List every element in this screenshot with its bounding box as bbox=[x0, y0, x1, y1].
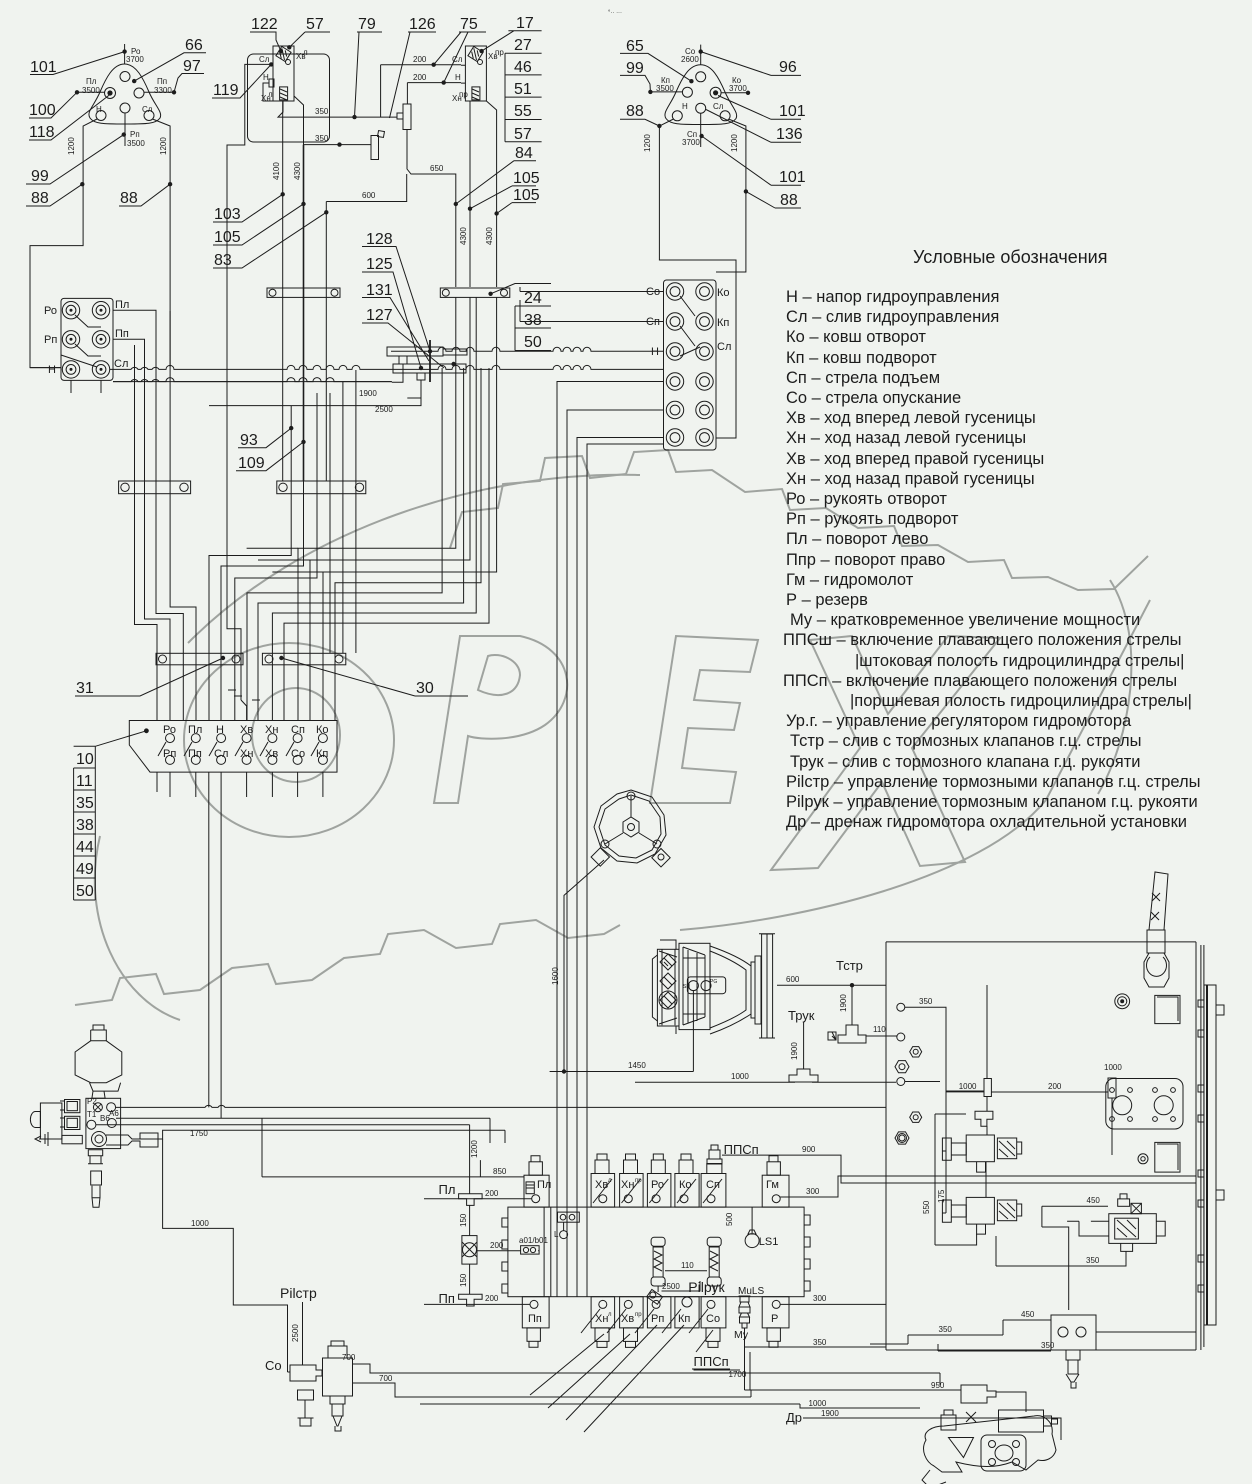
svg-text:Пп: Пп bbox=[188, 748, 202, 760]
svg-text:Р – резерв: Р – резерв bbox=[786, 591, 868, 609]
svg-text:Pilрук: Pilрук bbox=[688, 1279, 725, 1295]
svg-text:3500: 3500 bbox=[127, 139, 145, 148]
pilot cap So bottom bbox=[689, 1297, 726, 1348]
svg-text:99: 99 bbox=[31, 168, 49, 185]
hand wheel (cooling fan) bbox=[591, 790, 670, 867]
callout 105 c bbox=[497, 187, 540, 214]
right port block So/Ko Sp/Kp N/Sl bbox=[646, 280, 731, 450]
svg-text:97: 97 bbox=[183, 58, 201, 75]
oil cooler bar bbox=[1198, 985, 1224, 1325]
pressure valve assembly 1 in tank bbox=[942, 1135, 1021, 1172]
svg-text:44: 44 bbox=[76, 839, 94, 856]
svg-text:л: л bbox=[268, 90, 273, 99]
svg-text:2500: 2500 bbox=[375, 405, 393, 414]
inspection cover top bbox=[1155, 995, 1180, 1023]
Pilstr line bottom left bbox=[280, 1285, 317, 1365]
LS1 pressure switch bbox=[725, 1207, 778, 1248]
wire 350 lower right of manifold bbox=[744, 1338, 886, 1347]
svg-text:30: 30 bbox=[416, 680, 434, 697]
svg-text:350: 350 bbox=[315, 107, 329, 116]
svg-text:600: 600 bbox=[786, 975, 800, 984]
svg-text:4100: 4100 bbox=[272, 162, 281, 180]
svg-text:88: 88 bbox=[626, 103, 644, 120]
svg-text:66: 66 bbox=[185, 37, 203, 54]
svg-text:200: 200 bbox=[490, 1241, 504, 1250]
callout 103 bbox=[213, 194, 283, 223]
tee fitting upper center bbox=[397, 83, 411, 130]
svg-text:3500: 3500 bbox=[82, 86, 100, 95]
manifold internal pilot lines bbox=[544, 1207, 587, 1297]
svg-text:127: 127 bbox=[366, 307, 393, 324]
svg-text:Пл: Пл bbox=[188, 724, 202, 736]
svg-text:Ро: Ро bbox=[44, 305, 57, 317]
svg-text:Др – дренаж гидромотора охлади: Др – дренаж гидромотора охладительной ус… bbox=[786, 813, 1187, 831]
svg-text:Сл – слив гидроуправления: Сл – слив гидроуправления bbox=[786, 308, 999, 326]
wire 2500 and Pilruk label bbox=[662, 1279, 726, 1295]
cooling pump unit bottom bbox=[922, 1410, 1058, 1484]
svg-text:125: 125 bbox=[366, 256, 393, 273]
svg-text:Рп – рукоять подворот: Рп – рукоять подворот bbox=[786, 510, 959, 528]
wire 350 lower bbox=[294, 96, 371, 147]
svg-text:Хн: Хн bbox=[265, 724, 278, 736]
hydraulic tank unit box bbox=[886, 942, 1204, 1350]
wire right joystick Sl down to right port block bbox=[716, 119, 746, 272]
svg-text:Пп: Пп bbox=[115, 328, 129, 340]
svg-text:57: 57 bbox=[306, 16, 324, 33]
main pump assembly bbox=[652, 934, 775, 1038]
wire 600 pump to tank unit bbox=[777, 975, 886, 985]
clamp bar top right bbox=[440, 288, 510, 297]
svg-text:Ппр – поворот право: Ппр – поворот право bbox=[786, 551, 945, 569]
wire 1600 from hand wheel down bbox=[550, 860, 635, 1074]
svg-text:Ко: Ко bbox=[679, 1179, 692, 1191]
svg-text:Ко – ковш отворот: Ко – ковш отворот bbox=[786, 328, 926, 346]
mid bundle verticals bbox=[209, 370, 356, 721]
svg-text:93: 93 bbox=[240, 432, 258, 449]
wire 1000 bottom bbox=[420, 1399, 920, 1408]
svg-text:450: 450 bbox=[1021, 1310, 1035, 1319]
svg-text:103: 103 bbox=[214, 206, 241, 223]
overcenter valve tank right bbox=[1067, 1194, 1165, 1252]
svg-text:Р: Р bbox=[771, 1313, 778, 1325]
svg-text:3300: 3300 bbox=[154, 86, 172, 95]
wire 650 bbox=[407, 130, 456, 288]
pressure reducing fitting below block bbox=[88, 1132, 158, 1208]
svg-text:P2: P2 bbox=[87, 1097, 97, 1106]
svg-text:3700: 3700 bbox=[729, 84, 747, 93]
wires 700 bottom left bbox=[342, 1353, 940, 1397]
svg-text:150: 150 bbox=[459, 1273, 468, 1287]
wire 350 overcenter drain bbox=[996, 1236, 1126, 1266]
pilot cap Sp top bbox=[701, 1174, 726, 1208]
svg-text:Пл: Пл bbox=[115, 299, 129, 311]
svg-text:Условные обозначения: Условные обозначения bbox=[913, 247, 1107, 267]
WATERMARK bbox=[75, 450, 1150, 1020]
wire left joystick H to left port block bbox=[30, 119, 97, 368]
svg-text:Сп – стрела подъем: Сп – стрела подъем bbox=[786, 369, 940, 387]
callout 101 right upper bbox=[718, 96, 806, 121]
svg-text:136: 136 bbox=[776, 126, 803, 143]
svg-text:Ко: Ко bbox=[316, 724, 329, 736]
svg-text:2500: 2500 bbox=[662, 1282, 680, 1291]
svg-text:2500: 2500 bbox=[291, 1324, 300, 1342]
svg-text:Му: Му bbox=[734, 1329, 749, 1341]
svg-text:131: 131 bbox=[366, 282, 393, 299]
wire 600 bbox=[326, 174, 406, 202]
watermark gear band bottom bbox=[75, 920, 620, 1005]
svg-text:1700: 1700 bbox=[729, 1370, 747, 1379]
svg-text:Рп: Рп bbox=[163, 748, 176, 760]
tank internal supply vertical bbox=[975, 985, 993, 1126]
travel pedal valve right bbox=[452, 46, 504, 103]
wire 200 to cooler branch bbox=[991, 1078, 1116, 1155]
svg-text:Сл: Сл bbox=[214, 748, 228, 760]
callouts 128 125 131 127 bbox=[362, 231, 444, 368]
wire 4100 vertical bbox=[272, 101, 285, 481]
svg-text:Хв: Хв bbox=[621, 1313, 634, 1325]
pilot supply block bbox=[86, 1097, 121, 1149]
PPSp fitting on Sp cap bbox=[707, 1142, 759, 1174]
svg-text:Н – напор гидроуправления: Н – напор гидроуправления bbox=[786, 288, 999, 306]
solenoid valves on pilot block bbox=[30, 1100, 82, 1147]
pilot cap Hn-pr top bbox=[620, 1154, 644, 1207]
left port block Ro Rp N / Pl Pp Sl bbox=[44, 298, 129, 393]
svg-text:100: 100 bbox=[29, 102, 56, 119]
joystick pilot valve right (kovsh/strela) bbox=[648, 45, 750, 147]
svg-text:4300: 4300 bbox=[293, 162, 302, 180]
svg-text:200: 200 bbox=[485, 1189, 499, 1198]
svg-text:83: 83 bbox=[214, 252, 232, 269]
left bundle verticals bbox=[135, 311, 197, 721]
svg-text:118: 118 bbox=[29, 124, 55, 141]
svg-text:96: 96 bbox=[779, 59, 797, 76]
svg-text:84: 84 bbox=[515, 145, 533, 162]
callout 93 bbox=[238, 426, 293, 449]
svg-text:пр: пр bbox=[495, 48, 504, 57]
pilot cap Rp bottom bbox=[635, 1289, 671, 1333]
svg-text:150: 150 bbox=[459, 1213, 468, 1227]
left edge fittings of tank unit bbox=[895, 1003, 922, 1144]
svg-text:11: 11 bbox=[76, 773, 93, 790]
wire 450 to relief bbox=[965, 1310, 1051, 1335]
callout 66 bbox=[132, 37, 206, 83]
svg-text:650: 650 bbox=[430, 164, 444, 173]
accumulator bbox=[75, 1025, 122, 1098]
svg-text:Хн – ход назад левой гусеницы: Хн – ход назад левой гусеницы bbox=[786, 429, 1026, 447]
callout 96 bbox=[701, 52, 801, 76]
inspection cover bottom bbox=[1155, 1142, 1180, 1172]
svg-text:350: 350 bbox=[1041, 1341, 1055, 1350]
anti-shock valve 2 bbox=[707, 1237, 721, 1292]
svg-text:Ко: Ко bbox=[717, 287, 730, 299]
wire 200 lower to right pedal valve bbox=[407, 73, 461, 85]
svg-text:200: 200 bbox=[413, 73, 427, 82]
manifold inlet fitting bbox=[554, 1212, 579, 1239]
svg-text:L: L bbox=[554, 1230, 559, 1239]
svg-text:2600: 2600 bbox=[681, 55, 699, 64]
bus lines from left block to right block bbox=[30, 310, 663, 381]
callout 100 bbox=[29, 92, 77, 119]
svg-text:109: 109 bbox=[238, 455, 265, 472]
wire 1450 pump drain bbox=[564, 990, 693, 1072]
svg-text:700: 700 bbox=[342, 1353, 356, 1362]
pressure valve assembly 2 in tank bbox=[942, 1197, 1021, 1234]
svg-text:200: 200 bbox=[1048, 1082, 1062, 1091]
svg-text:пр: пр bbox=[459, 90, 468, 99]
svg-text:101: 101 bbox=[30, 59, 57, 76]
svg-text:35: 35 bbox=[76, 795, 94, 812]
svg-text:Н: Н bbox=[96, 105, 102, 114]
svg-text:Хв – ход вперед правой гусениц: Хв – ход вперед правой гусеницы bbox=[786, 450, 1044, 468]
pilot cap Hn-l bottom bbox=[581, 1297, 615, 1348]
callout 75 bbox=[434, 16, 486, 83]
callout 88 right lower bbox=[744, 189, 801, 209]
callout 99 right bbox=[620, 60, 650, 92]
svg-text:Др: Др bbox=[786, 1410, 802, 1425]
svg-text:31: 31 bbox=[76, 680, 94, 697]
svg-text:450: 450 bbox=[1087, 1196, 1101, 1205]
svg-text:4300: 4300 bbox=[485, 227, 494, 245]
svg-text:101: 101 bbox=[779, 169, 806, 186]
svg-text:LS1: LS1 bbox=[759, 1236, 779, 1248]
svg-text:3700: 3700 bbox=[126, 55, 144, 64]
watermark letter O bbox=[184, 643, 394, 837]
svg-text:Со: Со bbox=[706, 1313, 720, 1325]
svg-text:Ро: Ро bbox=[651, 1179, 664, 1191]
callout 57 top bbox=[289, 16, 330, 47]
svg-text:SH: SH bbox=[683, 984, 690, 990]
wires out of right port block lower rows to down-verticals bbox=[557, 382, 664, 1208]
svg-text:Му – кратковременное увеличени: Му – кратковременное увеличение мощности bbox=[790, 611, 1140, 629]
svg-text:Pilрук – управление тормозным: Pilрук – управление тормозным клапаном г… bbox=[786, 793, 1198, 811]
tee cluster with clamp bbox=[387, 340, 664, 382]
callout 31 bbox=[75, 658, 223, 697]
main control valve manifold body bbox=[502, 1207, 810, 1297]
wire Dr 1900 bbox=[786, 1409, 1061, 1440]
svg-text:700: 700 bbox=[379, 1374, 393, 1383]
Co tee bottom left bbox=[265, 1358, 322, 1381]
relief to cooler line bbox=[1096, 1331, 1196, 1333]
svg-text:55: 55 bbox=[514, 103, 532, 120]
pilot cap Pp bottom bbox=[522, 1297, 549, 1348]
pilot cap Gm top bbox=[762, 1156, 789, 1207]
wire 300 from Gm bbox=[780, 1176, 1196, 1197]
svg-text:350: 350 bbox=[1086, 1256, 1100, 1265]
svg-text:Хн: Хн bbox=[621, 1179, 634, 1191]
nest elbows above connector strip bbox=[228, 690, 260, 721]
svg-text:Н: Н bbox=[651, 346, 659, 358]
svg-text:1200: 1200 bbox=[730, 134, 739, 152]
callout 119 bbox=[212, 64, 271, 99]
svg-text:50: 50 bbox=[76, 883, 94, 900]
svg-text:3700: 3700 bbox=[682, 138, 700, 147]
svg-text:Н: Н bbox=[682, 102, 688, 111]
svg-text:Ро – рукоять отворот: Ро – рукоять отворот bbox=[786, 490, 947, 508]
svg-text:Пп: Пп bbox=[439, 1291, 455, 1306]
wire 1750 bbox=[133, 1129, 505, 1143]
MuLS fitting bbox=[734, 1286, 764, 1341]
legend title bbox=[913, 247, 1107, 267]
brake valve bottom left bbox=[298, 1341, 353, 1431]
svg-text:1900: 1900 bbox=[821, 1409, 839, 1418]
svg-text:ППСп – включение плавающего по: ППСп – включение плавающего положения ст… bbox=[783, 672, 1177, 690]
svg-text:79: 79 bbox=[358, 16, 376, 33]
clamp bar top left bbox=[267, 288, 340, 297]
svg-text:3500: 3500 bbox=[656, 84, 674, 93]
svg-text:Со: Со bbox=[265, 1358, 282, 1373]
svg-text:Тстр – слив с тормозных клапан: Тстр – слив с тормозных клапанов г.ц. ст… bbox=[790, 732, 1141, 750]
svg-text:99: 99 bbox=[626, 60, 644, 77]
svg-text:350: 350 bbox=[919, 997, 933, 1006]
svg-text:Н: Н bbox=[216, 724, 224, 736]
svg-text:ППСш – включение плавающего по: ППСш – включение плавающего положения ст… bbox=[783, 631, 1181, 649]
svg-text:50: 50 bbox=[524, 334, 542, 351]
svg-text:200: 200 bbox=[413, 55, 427, 64]
svg-text:1000: 1000 bbox=[809, 1399, 827, 1408]
watermark swoosh ellipse bbox=[95, 475, 1150, 1020]
callout 79 bbox=[355, 16, 383, 117]
svg-text:Кп: Кп bbox=[678, 1313, 690, 1325]
svg-text:Ур.г. – управление регулятором: Ур.г. – управление регулятором гидромото… bbox=[786, 712, 1132, 730]
svg-text:Пл: Пл bbox=[86, 77, 97, 86]
callout 99 left bbox=[26, 132, 126, 185]
callout 101 right lower bbox=[699, 134, 805, 186]
svg-text:Хн – ход назад правой гусеницы: Хн – ход назад правой гусеницы bbox=[786, 470, 1035, 488]
callout 105 b bbox=[470, 170, 540, 209]
svg-text:Тстр: Тстр bbox=[836, 958, 863, 973]
svg-text:A6: A6 bbox=[109, 1109, 119, 1118]
wire 350 from fitting circle bbox=[905, 997, 984, 1091]
legend body bbox=[783, 288, 1201, 831]
travel pedal valve left bbox=[227, 45, 308, 700]
tank bracket wires 550 175 bbox=[922, 1091, 987, 1245]
svg-text:Кп: Кп bbox=[717, 317, 729, 329]
svg-text:Со: Со bbox=[291, 748, 305, 760]
svg-text:Pilстр: Pilстр bbox=[280, 1285, 317, 1301]
pilot cap Pl top bbox=[524, 1156, 551, 1207]
svg-text:Хн: Хн bbox=[240, 748, 253, 760]
wire 850 into manifold bbox=[262, 1118, 524, 1177]
pilot cap Hv-l top bbox=[591, 1154, 615, 1207]
svg-text:T1: T1 bbox=[87, 1110, 97, 1119]
pilot cap Kp bottom bbox=[662, 1297, 699, 1333]
svg-text:950: 950 bbox=[931, 1381, 945, 1390]
svg-text:Пл: Пл bbox=[537, 1179, 551, 1191]
svg-text:350: 350 bbox=[315, 134, 329, 143]
svg-text:Сл: Сл bbox=[142, 105, 153, 114]
svg-text:Сл: Сл bbox=[713, 102, 724, 111]
svg-text:PG: PG bbox=[710, 979, 717, 985]
svg-text:Сл: Сл bbox=[717, 341, 731, 353]
svg-text:38: 38 bbox=[76, 817, 94, 834]
wire 2500 from tee cluster bbox=[209, 380, 421, 414]
svg-text:27: 27 bbox=[514, 37, 532, 54]
callout 83 bbox=[213, 212, 326, 269]
Mu drain vertical bbox=[745, 1328, 751, 1390]
callout 17 and number list 27/46/51/55/57 bbox=[482, 15, 542, 143]
svg-text:л: л bbox=[303, 48, 308, 57]
svg-text:ППСп: ППСп bbox=[694, 1354, 729, 1369]
PPSp bottom label and leaders bbox=[530, 1325, 747, 1432]
svg-text:B6: B6 bbox=[100, 1114, 110, 1123]
svg-text:Рп: Рп bbox=[130, 130, 140, 139]
svg-text:1200: 1200 bbox=[643, 134, 652, 152]
svg-text:300: 300 bbox=[806, 1187, 820, 1196]
svg-text:900: 900 bbox=[802, 1145, 816, 1154]
svg-text:Ро: Ро bbox=[163, 724, 176, 736]
svg-text:1750: 1750 bbox=[190, 1129, 208, 1138]
svg-text:46: 46 bbox=[514, 59, 532, 76]
svg-text:38: 38 bbox=[524, 312, 542, 329]
svg-text:МuLS: МuLS bbox=[738, 1286, 764, 1297]
number list 24/38/50 bbox=[491, 284, 551, 352]
number stack 10/11/35/38/44/49/50 bbox=[74, 731, 147, 900]
callout 109 bbox=[236, 440, 306, 472]
joystick pilot valve left (rukoyat) bbox=[75, 44, 176, 148]
svg-text:Хв: Хв bbox=[595, 1179, 608, 1191]
svg-text:126: 126 bbox=[409, 16, 436, 33]
callout 126 bbox=[390, 16, 437, 118]
svg-text:122: 122 bbox=[251, 16, 278, 33]
svg-text:51: 51 bbox=[514, 81, 532, 98]
svg-text:128: 128 bbox=[366, 231, 393, 248]
svg-text:Гм – гидромолот: Гм – гидромолот bbox=[786, 571, 914, 589]
pilot cap P bottom bbox=[762, 1297, 789, 1348]
anti-shock valve 1 bbox=[651, 1237, 665, 1292]
svg-text:1450: 1450 bbox=[628, 1061, 646, 1070]
svg-text:119: 119 bbox=[213, 82, 239, 99]
svg-text:1200: 1200 bbox=[159, 137, 168, 155]
svg-text:Со – стрела опускание: Со – стрела опускание bbox=[786, 389, 961, 407]
wires 4300 verticals right pedal bbox=[459, 101, 472, 287]
svg-text:105: 105 bbox=[513, 170, 540, 187]
svg-text:105: 105 bbox=[513, 187, 540, 204]
wire 1000 lower left bbox=[163, 1139, 288, 1372]
svg-text:600: 600 bbox=[362, 191, 376, 200]
callout 97 bbox=[174, 58, 204, 92]
wire 350 upper bbox=[278, 65, 397, 120]
svg-text:88: 88 bbox=[120, 190, 138, 207]
svg-text:350: 350 bbox=[939, 1325, 953, 1334]
wires into right port block rows 1-2 from harness bbox=[520, 287, 664, 322]
wire 1000/200 bottom of tees bbox=[635, 1063, 1122, 1082]
svg-text:1900: 1900 bbox=[359, 389, 377, 398]
svg-text:Хв – ход вперед левой гусеницы: Хв – ход вперед левой гусеницы bbox=[786, 409, 1036, 427]
tee fitting lower center bbox=[371, 131, 384, 160]
drain plug bbox=[1138, 1154, 1148, 1164]
svg-text:Сп: Сп bbox=[291, 724, 305, 736]
svg-text:Трук: Трук bbox=[788, 1008, 815, 1023]
callout 88 left a bbox=[26, 182, 85, 207]
svg-text:49: 49 bbox=[76, 861, 94, 878]
wire 200 upper to right pedal valve bbox=[381, 55, 461, 67]
clamp bar mid left bbox=[119, 481, 191, 494]
svg-text:101: 101 bbox=[779, 103, 806, 120]
wire 950 and tee bbox=[745, 1381, 1027, 1412]
svg-text:550: 550 bbox=[922, 1200, 931, 1214]
long verticals from strip to lower buses bbox=[209, 772, 221, 1118]
Truk label and tee bbox=[788, 1008, 818, 1082]
wire 4300 vertical left bbox=[293, 145, 306, 481]
svg-text:Сп: Сп bbox=[706, 1179, 720, 1191]
wire left joystick Sl down to bundle bbox=[153, 119, 171, 311]
callout 122 bbox=[250, 16, 281, 51]
svg-text:Гм: Гм bbox=[766, 1179, 779, 1191]
svg-text:°·· ···: °·· ··· bbox=[608, 10, 622, 16]
svg-text:1000: 1000 bbox=[1104, 1063, 1122, 1072]
svg-text:Рп: Рп bbox=[651, 1313, 664, 1325]
right side descending wires turning into nest bbox=[247, 297, 497, 720]
